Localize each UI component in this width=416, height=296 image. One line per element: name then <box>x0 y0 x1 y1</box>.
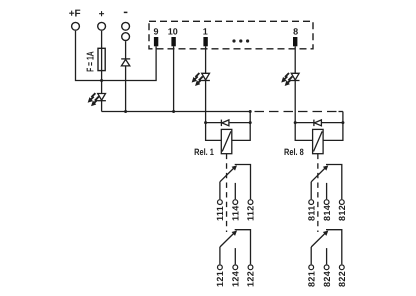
svg-text:124: 124 <box>231 271 241 287</box>
svg-text:9: 9 <box>153 26 158 36</box>
svg-text:112: 112 <box>246 205 256 221</box>
svg-text:+F: +F <box>69 9 81 20</box>
svg-text:Rel. 8: Rel. 8 <box>284 147 304 157</box>
svg-text:Rel. 1: Rel. 1 <box>194 147 214 157</box>
svg-text:814: 814 <box>322 205 332 221</box>
svg-text:1: 1 <box>203 26 208 36</box>
svg-text:812: 812 <box>337 205 347 221</box>
svg-text:824: 824 <box>322 271 332 287</box>
svg-text:+: + <box>99 9 105 20</box>
svg-text:8: 8 <box>293 26 298 36</box>
svg-text:122: 122 <box>246 271 256 287</box>
svg-text:F = 1A: F = 1A <box>85 51 96 72</box>
svg-text:10: 10 <box>168 26 178 36</box>
svg-text:821: 821 <box>306 271 316 287</box>
svg-text:121: 121 <box>215 271 225 287</box>
svg-text:822: 822 <box>337 271 347 287</box>
svg-text:811: 811 <box>306 205 316 221</box>
svg-text:111: 111 <box>215 206 225 221</box>
svg-text:114: 114 <box>231 205 241 221</box>
